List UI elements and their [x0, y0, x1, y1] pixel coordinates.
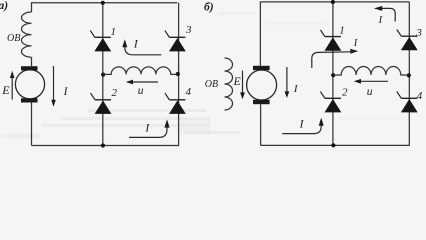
svg-text:u: u — [367, 86, 373, 98]
arrow I curved bottom-left (circuit b) — [282, 118, 323, 134]
inductor OB field winding (circuit a) — [21, 12, 31, 57]
wire coil-to-motor (circuit a) — [31, 57, 33, 66]
thyristor 1 (circuit a) — [90, 31, 111, 52]
svg-text:I: I — [353, 38, 358, 49]
svg-text:4: 4 — [417, 90, 423, 102]
node bottom junction (circuit b) — [331, 143, 335, 147]
wire top bus (circuit a) — [32, 3, 178, 12]
scan smudges (decorative) — [2, 12, 400, 138]
node left mid junction (circuit a) — [101, 73, 105, 77]
thyristor 1 (circuit b) — [320, 30, 341, 51]
svg-text:3: 3 — [185, 24, 192, 36]
svg-text:1: 1 — [339, 24, 345, 36]
inductor OB field winding (circuit b) — [225, 58, 233, 110]
svg-text:u: u — [138, 85, 144, 97]
node right mid junction (circuit b) — [407, 73, 411, 77]
thyristor 2 (circuit b) — [320, 92, 341, 113]
wire left bridge rail (circuit b) — [332, 2, 334, 146]
svg-text:1: 1 — [111, 26, 117, 38]
thyristor 4 (circuit b) — [397, 92, 418, 113]
arrow I curved bottom (circuit a) — [129, 119, 170, 137]
node left mid junction (circuit b) — [331, 73, 335, 77]
inductor load winding (circuit a) — [103, 67, 178, 75]
svg-text:ОВ: ОВ — [205, 79, 218, 90]
node top junction (circuit a) — [101, 1, 105, 5]
svg-text:E: E — [1, 83, 10, 97]
wire motor-to-bottom (circuit a) — [31, 103, 33, 146]
arrow I curved top (circuit a) — [122, 39, 161, 55]
svg-text:2: 2 — [342, 87, 348, 99]
svg-text:б): б) — [204, 2, 214, 14]
svg-text:4: 4 — [186, 86, 192, 98]
thyristor 3 (circuit b) — [397, 30, 418, 51]
wire left bridge rail (circuit a) — [102, 3, 104, 146]
arrow u left (circuit a) — [126, 80, 158, 85]
motor M armature (circuit a) — [15, 66, 44, 102]
node bottom junction (circuit a) — [101, 143, 105, 147]
svg-text:I: I — [378, 15, 383, 26]
arrow I down at motor (circuit a) — [51, 66, 56, 107]
motor M armature (circuit b) — [247, 66, 277, 104]
svg-text:2: 2 — [112, 87, 118, 99]
wire top bus (circuit b) — [260, 2, 409, 66]
node right mid junction (circuit a) — [176, 72, 180, 76]
wire bottom bus (circuit a) — [32, 3, 179, 146]
arrow I curved top-right (circuit b) — [374, 6, 395, 22]
svg-text:ОВ: ОВ — [7, 33, 20, 44]
arrow I down at motor (circuit b) — [285, 67, 290, 98]
wire motor-to-bottom (circuit b) — [260, 104, 262, 145]
arrow u left (circuit b) — [354, 79, 388, 84]
svg-text:3: 3 — [415, 27, 422, 39]
arrow E down (circuit b) — [240, 71, 245, 100]
arrow I mid right-pointing (circuit b) — [312, 49, 358, 68]
arrow E up (circuit a) — [10, 71, 15, 100]
svg-text:а): а) — [0, 0, 8, 12]
svg-text:E: E — [233, 76, 241, 88]
node top junction (circuit b) — [331, 0, 335, 4]
thyristor 4 (circuit a) — [165, 93, 186, 114]
inductor load winding (circuit b) — [333, 67, 409, 76]
thyristor 3 (circuit a) — [165, 31, 186, 52]
wire bottom bus (circuit b) — [261, 2, 410, 146]
thyristor 2 (circuit a) — [91, 93, 112, 114]
